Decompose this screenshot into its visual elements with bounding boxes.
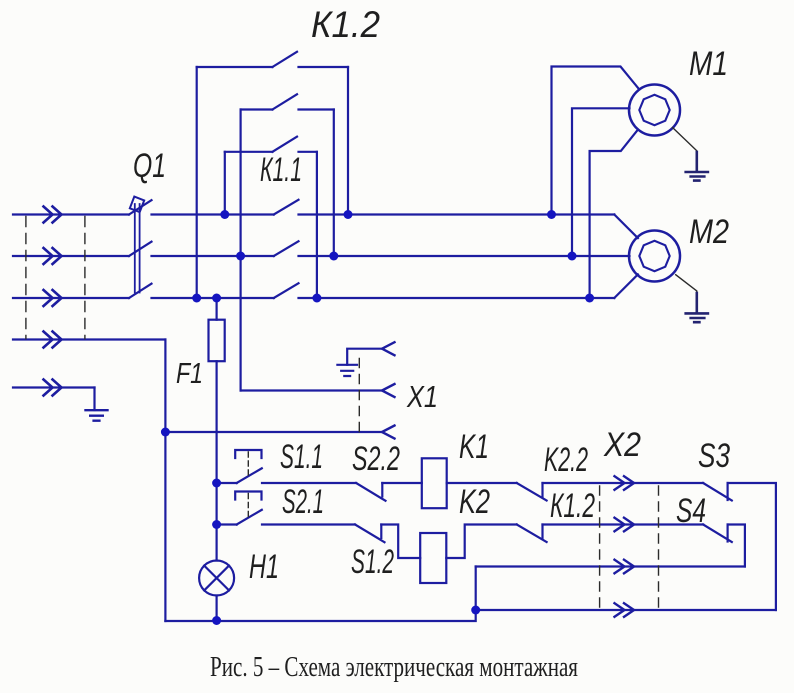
contact K1.2 pole1 blade (272, 52, 297, 67)
node L3-M1 riser junction (585, 294, 594, 303)
coil K1 (422, 458, 447, 508)
svg-text:К1.2: К1.2 (311, 4, 380, 45)
wire L1 diagonal into M2 (614, 215, 638, 239)
input arrow L1 (44, 207, 62, 223)
dashed marks and thin black details (26, 128, 697, 609)
wire phase L1 input segment (13, 213, 129, 215)
svg-text:K2.2: K2.2 (544, 441, 588, 479)
ground symbol PE input (86, 410, 108, 421)
input arrow PE line (44, 380, 62, 396)
switch S3 blade (703, 483, 732, 501)
svg-text:Рис. 5 – Схема электрическая м: Рис. 5 – Схема электрическая монтажная (210, 652, 578, 683)
pushbutton S1.1 actuator dashed link (247, 452, 249, 477)
wire row1 bus to S1.1 (217, 482, 237, 484)
wire row4 return (476, 609, 776, 611)
node bus-bottom junction (212, 616, 221, 625)
contact S1.2 blade (355, 525, 385, 543)
wire K1.2 pole3 right drop to L3 (316, 152, 318, 298)
node bus-row2 junction (212, 520, 221, 529)
wire bottom return (165, 567, 475, 622)
wire L3 K1.1 to motor branch (299, 297, 615, 299)
pushbutton S1.1 blade (237, 468, 262, 483)
ground symbol M2 (686, 293, 708, 322)
wire M1 riser phase1 (552, 67, 639, 215)
cable dashed line left (25, 217, 27, 339)
wire row1 S2.2 to K1 coil (382, 482, 422, 484)
wire row2 K1.2aux to S4 (543, 523, 704, 525)
contact S2.2 blade (356, 483, 385, 501)
wire phase L2 input segment (13, 255, 129, 257)
wire L3 Q1 to K1.1 (152, 297, 274, 299)
switch S4 stub (726, 525, 728, 542)
connector X2 arrow row4 (615, 603, 635, 617)
wire row1 K1 coil to K2.2 (447, 482, 517, 484)
contact K1.1 blade pole3 (274, 283, 299, 298)
wire row1 S1.1 to S2.2 (262, 482, 356, 484)
node L1-K1.2p3 junction (220, 210, 229, 219)
wire PE line input segment (13, 386, 95, 388)
svg-text:S4: S4 (676, 492, 706, 530)
svg-text:K2: K2 (459, 483, 490, 521)
svg-text:H1: H1 (249, 548, 279, 586)
connector X2 arrow row1 (615, 476, 635, 490)
svg-text:Q1: Q1 (133, 147, 166, 185)
switch S3 stub (726, 483, 728, 500)
wire L2 K1.1 to motor branch (299, 255, 630, 257)
node bus-row1 junction (212, 479, 221, 488)
switch Q1 linkage bar (135, 204, 140, 293)
connector X2 dashed boundary left (599, 486, 601, 608)
fuse F1 lead from L3 (216, 298, 218, 320)
node N-X1pin3 junction (161, 428, 170, 437)
node L1-K1.2p1 junction (344, 210, 353, 219)
input arrow L3 (44, 290, 62, 306)
wire lamp H1 to bottom (216, 596, 218, 621)
contact K1.2aux stub (541, 525, 543, 539)
wire control bus below F1 (216, 361, 218, 560)
motor M2 outer circle (629, 231, 680, 282)
motor M1 inner ring (639, 95, 669, 125)
wire row3 return (476, 565, 745, 567)
lamp H1 circle (199, 561, 234, 596)
connector X1 pin3 arrowhead (382, 426, 395, 439)
connector X1 pin1 wire (347, 349, 382, 365)
contact S2.2 stub (381, 483, 383, 497)
switch Q1 handle (130, 197, 144, 213)
contact K2.2 stub (541, 483, 543, 497)
wire M1 riser phase3 (590, 130, 638, 299)
wire L2 Q1 to K1.1 (152, 255, 274, 257)
contact K1.2 pole3 left wire (225, 151, 273, 153)
node row4-return junction (471, 606, 480, 615)
node L2-M1 riser junction (568, 252, 577, 261)
wire row2 jog down to K2 coil (381, 525, 420, 559)
switch S4 blade (703, 525, 732, 543)
svg-text:S1.1: S1.1 (280, 438, 323, 476)
contact S1.2 stub (380, 525, 382, 539)
wire K1.2 pole2 right drop to L2 (333, 110, 335, 257)
svg-text:М1: М1 (689, 45, 728, 83)
contact K2.2 blade (517, 483, 547, 501)
contact K1.2 pole3 right wire (299, 151, 317, 153)
wire row2 bus to S2.1 (217, 523, 237, 525)
connector X1 pin2 arrowhead (382, 384, 395, 397)
motor M1 outer circle (629, 85, 680, 136)
svg-text:K1: K1 (459, 428, 489, 466)
wire L1 K1.1 to motor branch (299, 213, 615, 215)
pushbutton S2.1 actuator dashed link (247, 494, 249, 519)
wire row1 S3 to right drop (728, 483, 776, 610)
pushbutton S2.1 blade (237, 510, 262, 525)
node L3-F1 junction (212, 294, 221, 303)
wire N drop left vertical (164, 340, 166, 622)
connector X1 dashed boundary (358, 359, 360, 435)
wire L1 Q1 to K1.1 (152, 213, 274, 215)
wire row2 K2 coil jog up (446, 525, 516, 559)
wire K1.2 pole3 left drop to L1 (224, 152, 226, 215)
connector X2 arrow row2 (615, 518, 635, 532)
switch Q1 blade pole2 (129, 242, 152, 256)
contact K1.2 pole1 left wire (197, 66, 273, 68)
contact K1.1 blade pole1 (274, 200, 299, 215)
svg-text:X2: X2 (603, 426, 641, 464)
connector X2 dashed boundary right (658, 486, 660, 608)
wire PE drop to ground (93, 388, 95, 411)
contact K1.2aux blade (517, 525, 547, 543)
connector X1 pin1 arrowhead (382, 342, 395, 355)
node L2-K1.2p2 junction (236, 252, 245, 261)
contact K1.1 blade pole2 (274, 241, 299, 256)
contact K1.2 pole2 left wire (241, 108, 273, 110)
svg-text:К1.1: К1.1 (260, 151, 302, 189)
switch Q1 blade pole1 (129, 200, 152, 214)
svg-text:S2.2: S2.2 (352, 440, 400, 478)
wire phase L3 input segment (13, 297, 129, 299)
coil K2 (420, 533, 446, 583)
svg-text:F1: F1 (176, 358, 203, 390)
connector X1 pin3 wire (165, 431, 382, 433)
connector X2 arrow row3 (615, 560, 635, 574)
contact K1.2 pole2 right wire (299, 108, 334, 110)
connector X1 pin1 ground bars (337, 365, 357, 376)
motor M2 inner ring (639, 241, 669, 271)
svg-text:S1.2: S1.2 (351, 543, 394, 581)
pushbutton S2.1 cap (235, 492, 261, 500)
input arrow L2 (44, 248, 62, 264)
node L3-K1.2p3r junction (312, 294, 321, 303)
wire M1 riser phase2 (572, 108, 630, 256)
svg-text:М2: М2 (689, 213, 729, 251)
wire row2 S4 to right drop (728, 525, 745, 567)
input arrow N line (44, 332, 62, 348)
lamp H1 cross spokes (204, 566, 229, 591)
node L2-K1.2p2r junction (329, 252, 338, 261)
node L1-M1 riser junction (547, 210, 556, 219)
switch Q1 blade pole3 (129, 284, 152, 298)
svg-text:S2.1: S2.1 (282, 483, 324, 521)
node L3-K1.2p1l junction (192, 294, 201, 303)
connector X1 pin2 wire (241, 389, 382, 391)
motor M1 ground lead (673, 128, 697, 172)
wire K1.2 pole1 right drop to L1 (347, 67, 349, 215)
wire L3 diagonal into M2 (614, 274, 638, 298)
contact K1.2 pole3 blade (272, 137, 297, 152)
wire N line input segment (13, 338, 165, 340)
svg-text:К1.2: К1.2 (550, 487, 595, 525)
wire row2 S2.1 to S1.2 (262, 523, 355, 525)
contact K1.2 pole1 right wire (299, 66, 349, 68)
motor M2 ground lead (676, 275, 697, 313)
svg-text:X1: X1 (406, 379, 438, 414)
wire K1.2 pole2 left riser and drop to X1 pin2 (240, 110, 242, 391)
ground symbol M1 (686, 152, 708, 181)
wire row1 K2.2 to S3 (543, 482, 704, 484)
pushbutton S1.1 cap (235, 450, 261, 458)
cable dashed line right (84, 217, 86, 339)
svg-text:S3: S3 (698, 437, 730, 475)
fuse F1 body (209, 320, 225, 362)
contact K1.2 pole2 blade (272, 94, 297, 109)
wire K1.2 pole1 left riser to L3 (196, 67, 198, 298)
